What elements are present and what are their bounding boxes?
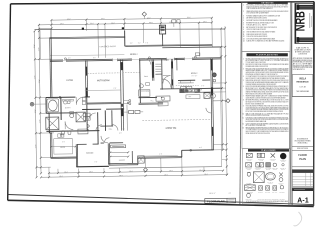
svg-text:18′-0″: 18′-0″: [204, 174, 208, 176]
svg-text:24′-6″: 24′-6″: [111, 23, 115, 25]
svg-text:VIOLA: VIOLA: [299, 78, 306, 81]
svg-text:NRB: NRB: [294, 11, 308, 31]
svg-text:FLOOR: FLOOR: [298, 154, 307, 157]
svg-text:13-0 x 11-6: 13-0 x 11-6: [191, 75, 197, 77]
svg-text:KIT: KIT: [189, 96, 191, 98]
svg-text:NOOK: NOOK: [60, 147, 66, 149]
svg-text:12: 12: [242, 123, 244, 125]
svg-text:10: 10: [242, 113, 244, 115]
svg-text:12′-4″: 12′-4″: [39, 119, 41, 123]
svg-text:18′-0″: 18′-0″: [164, 174, 168, 176]
svg-text:13: 13: [243, 38, 245, 40]
svg-text:FLOOR PLAN: FLOOR PLAN: [207, 200, 224, 203]
svg-text:3-0: 3-0: [122, 128, 124, 130]
svg-text:24′-6″: 24′-6″: [187, 17, 191, 19]
svg-text:A-1: A-1: [297, 198, 309, 205]
svg-text:14: 14: [243, 41, 245, 43]
svg-text:24′-6″: 24′-6″: [203, 21, 207, 23]
svg-text:TYP UNO VERIFY FIELD CONDITION: TYP UNO VERIFY FIELD CONDITIONS: [246, 62, 266, 64]
svg-text:PLAN LEGEND: PLAN LEGEND: [261, 149, 276, 152]
svg-text:BDRM 3: BDRM 3: [191, 73, 197, 75]
svg-text:1/4″=1′-0″: 1/4″=1′-0″: [209, 193, 216, 195]
svg-text:SMOKE DETECTORS PER: SMOKE DETECTORS PER: [297, 148, 309, 150]
svg-text:18′-0″: 18′-0″: [169, 170, 173, 172]
svg-text:LOT 48: LOT 48: [300, 87, 306, 89]
svg-text:GREAT RM: GREAT RM: [165, 127, 176, 130]
svg-text:COVERED PATIO: COVERED PATIO: [99, 45, 116, 48]
svg-text:24′-6″: 24′-6″: [149, 22, 153, 24]
svg-text:10: 10: [243, 31, 245, 33]
svg-text:18′-0″: 18′-0″: [129, 171, 133, 173]
svg-text:WINDOW DOOR: WINDOW DOOR: [247, 160, 251, 162]
svg-text:SMOKE DETECTORS: SMOKE DETECTORS: [272, 199, 279, 201]
svg-text:12′-4″: 12′-4″: [34, 75, 36, 79]
svg-text:BDRM 2: BDRM 2: [130, 54, 138, 56]
svg-text:12′-4″: 12′-4″: [35, 109, 37, 113]
svg-text:11: 11: [243, 34, 245, 36]
svg-text:24′-6″: 24′-6″: [101, 18, 105, 20]
svg-text:24′-6″: 24′-6″: [90, 23, 94, 25]
svg-text:W.I.C.: W.I.C.: [60, 134, 65, 136]
svg-text:CODE GYP BD CEILING HEIGHT WIN: CODE GYP BD CEILING HEIGHT WINDOW: [246, 36, 267, 38]
svg-text:18′-0″: 18′-0″: [89, 171, 93, 173]
svg-text:12′-4″: 12′-4″: [34, 44, 36, 48]
svg-text:RESIDENCE: RESIDENCE: [297, 82, 310, 84]
svg-text:KEYNOTES: KEYNOTES: [261, 3, 274, 5]
svg-text:13: 13: [242, 127, 244, 129]
svg-text:24′-6″: 24′-6″: [147, 17, 151, 19]
svg-text:SMOKE DETECTORS PER CODE GYP B: SMOKE DETECTORS PER CODE GYP BD CEILING …: [246, 119, 289, 121]
svg-text:22X30 MIN: 22X30 MIN: [266, 169, 270, 171]
svg-text:12′-4″: 12′-4″: [38, 47, 40, 51]
svg-text:GARAGE: GARAGE: [86, 151, 94, 154]
svg-text:MSTR BDRM: MSTR BDRM: [97, 80, 110, 82]
svg-text:LIVING: LIVING: [66, 80, 73, 82]
svg-text:12: 12: [243, 36, 245, 38]
svg-text:PLAN: PLAN: [299, 158, 306, 161]
svg-text:FLOOR PLAN NOTES: FLOOR PLAN NOTES: [256, 54, 278, 57]
svg-text:18′-0″: 18′-0″: [199, 170, 203, 172]
svg-text:18′-0″: 18′-0″: [59, 176, 63, 178]
svg-text:PER CODE: PER CODE: [280, 199, 285, 201]
svg-text:12′-4″: 12′-4″: [39, 79, 41, 83]
svg-text:LNDRY: LNDRY: [164, 59, 169, 61]
svg-text:12′-4″: 12′-4″: [35, 144, 37, 148]
svg-text:18′-0″: 18′-0″: [64, 172, 68, 174]
svg-text:18′-0″: 18′-0″: [119, 175, 123, 177]
svg-text:24′-6″: 24′-6″: [67, 19, 71, 21]
svg-text:24′-6″: 24′-6″: [60, 23, 64, 25]
